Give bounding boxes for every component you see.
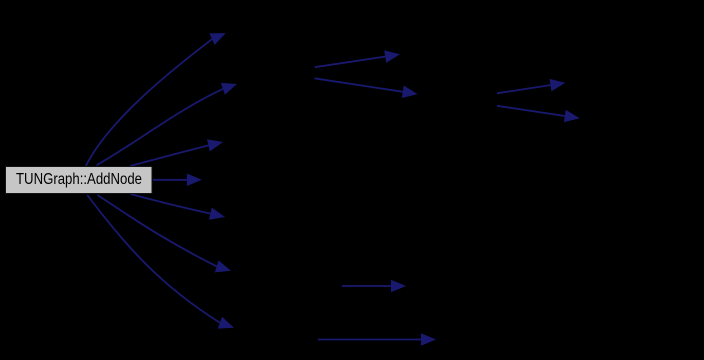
node TUNGraph::AddNode (current node box) (6, 167, 153, 194)
edge node7->node7a (horizontal) (318, 333, 436, 346)
edge node6->node6a (horizontal) (342, 280, 406, 293)
edge AddNode->node1 (curved) (86, 33, 226, 166)
svg-text:TUNGraph::AddNode: TUNGraph::AddNode (16, 171, 142, 188)
edge node2b->node2b1 (497, 79, 565, 93)
edge AddNode->node6 (curved) (98, 195, 232, 272)
edge AddNode->node3 (130, 139, 223, 166)
edge AddNode->node5 (131, 194, 226, 220)
edge AddNode->node2 (curved) (97, 83, 237, 165)
edge node2b->node2b2 (497, 106, 580, 122)
edge AddNode->node4 (horizontal) (153, 174, 202, 187)
edge AddNode->node7 (curved) (87, 195, 234, 329)
edge node2->node2a (315, 50, 400, 67)
edge node2->node2b (314, 78, 417, 98)
